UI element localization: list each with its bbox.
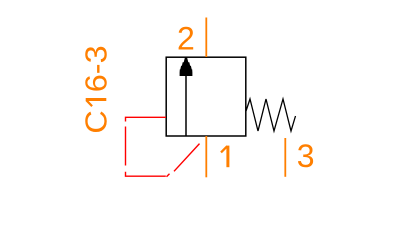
pilot line bottom corner bbox=[126, 172, 166, 176]
flow arrow stem bbox=[185, 70, 187, 136]
svg-text:2: 2 bbox=[177, 21, 195, 57]
svg-text:C: C bbox=[78, 110, 113, 133]
pilot line dashed vertical bbox=[125, 127, 127, 166]
valve body square bbox=[166, 57, 246, 136]
port 2 line bbox=[205, 18, 207, 58]
svg-text:6-3: 6-3 bbox=[78, 45, 113, 92]
label C16-3 bbox=[78, 45, 113, 133]
pilot line dashed diagonal short bbox=[167, 174, 170, 177]
port 1 line bbox=[205, 136, 207, 177]
flow arrow head bbox=[180, 58, 193, 76]
port 3 line bbox=[284, 138, 286, 177]
svg-text:3: 3 bbox=[297, 138, 315, 174]
spring bbox=[246, 99, 296, 131]
pilot line solid horizontal bbox=[126, 117, 167, 121]
label 1 (Arial-style, no foot bar) bbox=[221, 146, 228, 168]
pilot line dashed diagonal long bbox=[174, 144, 200, 172]
